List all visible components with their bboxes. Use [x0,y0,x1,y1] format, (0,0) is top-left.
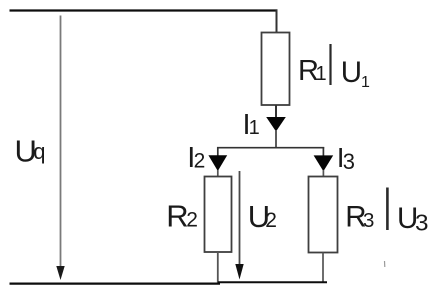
svg-text:2: 2 [186,209,198,232]
svg-text:3: 3 [415,210,429,236]
svg-text:2: 2 [194,150,206,173]
svg-text:2: 2 [265,209,277,232]
svg-text:1: 1 [249,117,260,139]
svg-text:3: 3 [363,209,374,232]
svg-text:3: 3 [343,149,355,174]
svg-text:q: q [33,139,45,164]
svg-text:1: 1 [361,74,370,91]
svg-text:R: R [166,198,188,233]
svg-text:U: U [341,56,362,89]
svg-text:1: 1 [316,63,327,85]
